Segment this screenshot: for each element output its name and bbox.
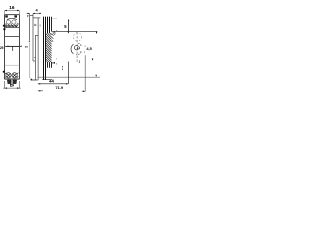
small tick right of flange	[39, 24, 41, 26]
dimension 16 arrows	[4, 10, 19, 12]
svg-text:71.9: 71.9	[56, 85, 64, 90]
dashed circle upper	[73, 33, 81, 41]
inner spiral	[74, 46, 77, 50]
small step mark	[34, 56, 35, 59]
leader square left upper	[3, 25, 5, 27]
extension line x68.5 lower	[68, 62, 70, 84]
top hatch band	[5, 25, 19, 28]
faint lower continuation of flange left edge	[29, 43, 31, 79]
dimension 16 line	[5, 10, 20, 14]
bottom balls	[5, 73, 18, 78]
svg-text:44: 44	[49, 79, 54, 84]
T feature line	[5, 45, 19, 51]
pedestal hatched	[7, 80, 16, 84]
extension line x68.5 upper	[68, 20, 70, 32]
dimension 4 line	[27, 12, 41, 14]
colon dots	[62, 66, 63, 69]
vertical axis x85.2	[84, 55, 86, 91]
small mark below dim4 left arrow	[27, 15, 29, 17]
svg-text:16: 16	[9, 5, 15, 10]
hook at flange line bottom	[28, 41, 30, 43]
leader end down arrow	[96, 32, 98, 34]
spring right edge	[51, 17, 53, 32]
baseline axis	[38, 76, 100, 78]
svg-text:4,5: 4,5	[86, 46, 92, 51]
down arrow under line at x68.4	[68, 32, 70, 34]
bottom dim arrows	[5, 87, 20, 89]
faint stub right of spring top	[52, 17, 57, 19]
svg-text:co: co	[25, 45, 29, 49]
dim 71.9 right piece	[82, 90, 85, 92]
nub at its top	[68, 20, 69, 22]
faint marks left of text	[80, 45, 85, 53]
small arrow mark right	[92, 58, 94, 60]
tiny tabs below pedestal	[10, 84, 13, 86]
small dashes mid flange	[34, 24, 36, 25]
small hole	[77, 47, 79, 49]
faint dots lower left of circle	[56, 58, 57, 64]
seal squares top	[5, 15, 17, 17]
small tick below line start	[56, 30, 57, 31]
bottom dim line left	[3, 81, 20, 89]
leader arrow to right edge	[20, 46, 22, 48]
dim 44 line	[38, 83, 69, 85]
round part outer circle	[71, 44, 74, 54]
dimension 4 arrows	[28, 13, 41, 14]
down arrow at middle bottom	[30, 79, 32, 81]
right part top line	[51, 30, 97, 32]
flange plate edges	[30, 14, 41, 80]
hatch wedge right of spring	[52, 32, 56, 42]
spring band verticals full	[44, 17, 46, 80]
mark on baseline right	[95, 75, 97, 77]
gussets beside balls	[5, 23, 19, 24]
dim 71.9 left piece	[38, 90, 43, 92]
inner line y36	[5, 35, 20, 37]
spring top stripes	[48, 17, 50, 33]
small j mark	[78, 60, 81, 63]
center dashed line	[76, 32, 78, 62]
top balls	[7, 20, 17, 24]
bottom line of middle part	[31, 79, 38, 81]
dim 44 arrows	[38, 83, 69, 85]
faint inner line y65	[5, 64, 19, 66]
spring bottom stripes	[48, 62, 55, 68]
dimension 16 text	[9, 5, 15, 10]
leader square left lower	[3, 71, 5, 73]
top arc retainer	[7, 18, 17, 19]
bearing outer rect	[5, 15, 20, 79]
svg-text:25: 25	[0, 46, 4, 50]
race bottom line	[5, 78, 20, 80]
